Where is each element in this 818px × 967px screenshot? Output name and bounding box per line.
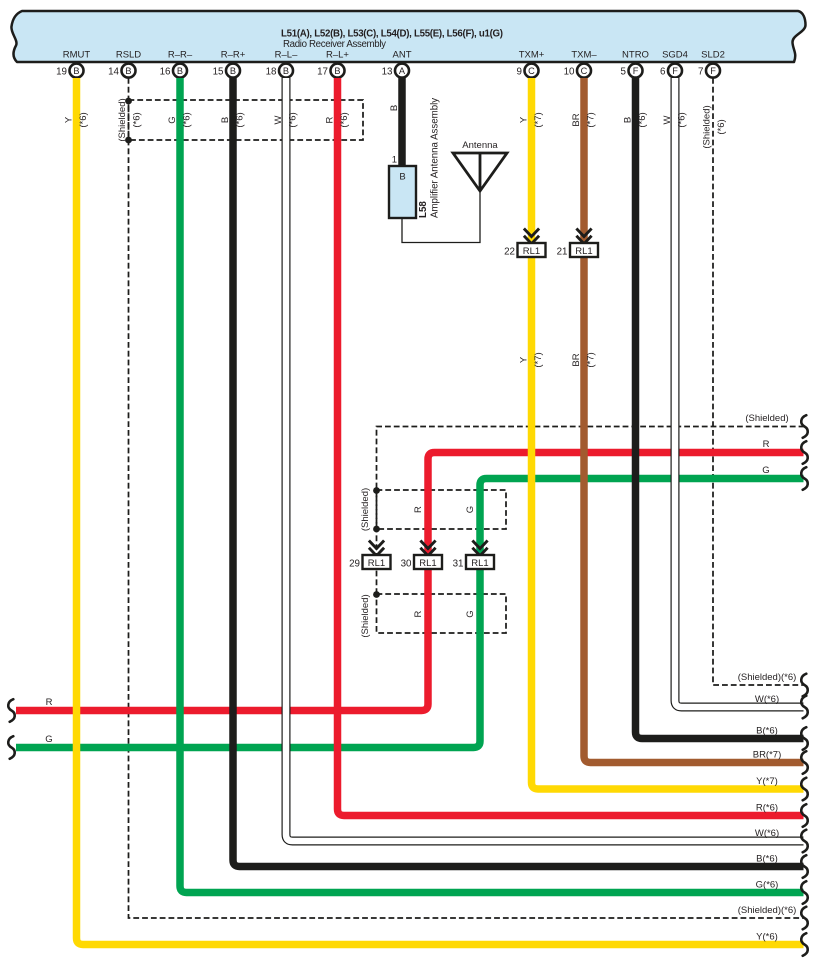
svg-text:(Shielded): (Shielded) [117,98,128,141]
svg-text:29: 29 [349,559,360,570]
svg-text:W: W [273,115,284,124]
radio receiver assembly banner [11,11,805,62]
svg-text:R: R [413,610,424,617]
svg-text:BR: BR [571,353,582,366]
svg-text:RL1: RL1 [523,246,540,257]
svg-text:G: G [465,610,476,617]
splice 31 RL1 [453,541,494,570]
svg-text:TXM+: TXM+ [519,50,545,61]
wire NTRO B(*6) [623,78,808,750]
svg-text:G: G [45,734,52,745]
connector label TXM- [571,50,597,61]
amplifier antenna assembly L58 [389,98,441,218]
pin 6(F) [660,64,682,78]
connector label ANT [393,50,412,61]
svg-text:SLD2: SLD2 [701,50,725,61]
svg-text:G: G [762,465,769,476]
svg-text:1: 1 [392,155,397,166]
pin 17(B) [317,64,344,78]
svg-text:B(*6): B(*6) [756,726,778,737]
svg-text:17: 17 [317,66,328,77]
svg-text:5: 5 [621,66,627,77]
junction dots on shield lines [125,98,380,598]
svg-text:(Shielded)(*6): (Shielded)(*6) [738,905,797,916]
svg-text:B: B [283,66,289,76]
splice 21 RL1 [557,229,598,258]
svg-text:B: B [177,66,183,76]
svg-text:B: B [220,117,231,123]
svg-text:6: 6 [660,66,666,77]
svg-text:(*7): (*7) [533,112,544,127]
svg-text:13: 13 [382,66,393,77]
svg-text:Y(*7): Y(*7) [756,776,778,787]
antenna [453,140,507,191]
svg-text:R–L+: R–L+ [326,50,349,61]
svg-text:Amplifier Antenna Assembly: Amplifier Antenna Assembly [430,98,441,218]
shield box around G,B,W,R wires (top) [129,100,364,140]
svg-text:W(*6): W(*6) [755,828,779,839]
svg-text:BR: BR [571,113,582,126]
pin 9(C) [517,64,539,78]
svg-text:B(*6): B(*6) [756,854,778,865]
shield box lower (R,G pair) [360,594,506,638]
svg-text:B: B [334,66,340,76]
svg-text:Radio Receiver Assembly: Radio Receiver Assembly [283,39,386,50]
svg-text:C: C [528,66,535,76]
svg-text:R(*6): R(*6) [756,803,778,814]
banner title L51(A)...u1(G) [281,29,503,51]
svg-text:(*6): (*6) [78,112,89,127]
connector label SGD4 [662,50,688,61]
svg-text:16: 16 [160,66,171,77]
svg-text:Y: Y [519,356,530,363]
svg-text:RL1: RL1 [471,558,488,569]
wire SGD4 W(*6) [662,78,808,718]
svg-text:G(*6): G(*6) [756,880,779,891]
svg-text:RMUT: RMUT [63,50,91,61]
svg-text:B: B [125,66,131,76]
splice 22 RL1 [504,229,545,258]
connector label SLD2 [701,50,725,61]
wire SLD2 shield (dashed) [702,78,808,696]
svg-text:(*7): (*7) [586,352,597,367]
pin 7(F) [698,64,720,78]
svg-text:G: G [465,506,476,513]
svg-text:B: B [230,66,236,76]
splice 29 RL1 [349,541,390,570]
wire ANT B [389,78,402,168]
svg-text:TXM–: TXM– [571,50,597,61]
svg-text:F: F [633,66,639,76]
svg-text:30: 30 [401,559,412,570]
svg-text:B: B [623,117,634,123]
svg-text:(*6): (*6) [637,112,648,127]
svg-text:(Shielded): (Shielded) [360,594,371,637]
svg-text:F: F [672,66,678,76]
svg-text:RL1: RL1 [419,558,436,569]
wire G (left) through RL1 31 to right [8,465,808,759]
svg-text:R: R [46,697,53,708]
svg-text:(*6): (*6) [182,112,193,127]
svg-text:G: G [167,116,178,123]
svg-text:(Shielded): (Shielded) [360,488,371,531]
svg-text:F: F [710,66,716,76]
svg-text:B: B [399,172,405,183]
svg-text:W(*6): W(*6) [755,694,779,705]
svg-text:RSLD: RSLD [116,50,141,61]
shield box upper (R,G pair) [360,488,506,531]
svg-text:R–R+: R–R+ [221,50,246,61]
svg-text:ANT: ANT [393,50,412,61]
connector label RSLD [116,50,141,61]
pin 19(B) [56,64,83,78]
svg-text:B: B [73,66,79,76]
svg-text:RL1: RL1 [575,246,592,257]
wire R (left) through RL1 30 to right [8,439,808,722]
wire R-R+ B(*6) [220,78,808,878]
wire R-R- G(*6) [167,78,808,904]
wire R-L+ R(*6) [325,78,808,827]
wire TXM- BR(*7) [571,78,808,774]
svg-text:(Shielded): (Shielded) [702,105,713,148]
svg-text:(*6): (*6) [716,119,727,134]
shield net RL1 29 (dashed) [377,413,808,594]
wire TXM+ Y(*7) [519,78,808,800]
svg-text:A: A [399,66,406,76]
svg-text:R: R [413,506,424,513]
svg-text:W: W [662,115,673,124]
pin 18(B) [266,64,293,78]
svg-text:BR(*7): BR(*7) [753,750,782,761]
wire R-L- W(*6) [273,78,808,852]
svg-text:9: 9 [517,66,522,77]
svg-text:(Shielded): (Shielded) [745,413,788,424]
pin 10(C) [564,64,591,78]
connector label TXM+ [519,50,545,61]
svg-text:Antenna: Antenna [462,140,498,151]
svg-text:10: 10 [564,66,575,77]
svg-text:C: C [581,66,588,76]
svg-text:Y: Y [519,116,530,123]
svg-text:(*7): (*7) [533,352,544,367]
connector label R-R- [168,50,193,61]
svg-text:(*6): (*6) [677,112,688,127]
svg-text:R–R–: R–R– [168,50,193,61]
svg-text:L51(A), L52(B), L53(C), L54(D): L51(A), L52(B), L53(C), L54(D), L55(E), … [281,29,503,40]
connector label R-R+ [221,50,246,61]
svg-text:NTRO: NTRO [622,50,649,61]
splice 30 RL1 [401,541,442,570]
connector label R-L- [275,50,298,61]
svg-text:22: 22 [504,247,515,258]
wire RSLD shield (dashed) [117,78,808,929]
svg-text:R: R [763,439,770,450]
svg-text:B: B [389,105,400,111]
pin 13(A) [382,64,409,78]
wire antenna lead [402,191,480,243]
connector label NTRO [622,50,649,61]
connector label R-L+ [326,50,349,61]
svg-text:15: 15 [213,66,224,77]
svg-text:RL1: RL1 [368,558,385,569]
svg-text:R: R [325,116,336,123]
svg-text:31: 31 [453,559,464,570]
pin 16(B) [160,64,187,78]
svg-text:19: 19 [56,66,67,77]
svg-text:L58: L58 [418,201,429,218]
connector label RMUT [63,50,91,61]
svg-text:R–L–: R–L– [275,50,298,61]
svg-text:14: 14 [108,66,119,77]
svg-text:(*6): (*6) [235,112,246,127]
svg-text:(*6): (*6) [339,112,350,127]
pin 15(B) [213,64,240,78]
svg-text:(*7): (*7) [586,112,597,127]
pin 5(F) [621,64,643,78]
svg-text:21: 21 [557,247,568,258]
svg-text:Y: Y [64,116,75,123]
svg-text:SGD4: SGD4 [662,50,688,61]
svg-text:(*6): (*6) [132,112,143,127]
svg-text:(Shielded)(*6): (Shielded)(*6) [738,672,797,683]
svg-text:7: 7 [698,66,703,77]
svg-text:18: 18 [266,66,277,77]
svg-text:Y(*6): Y(*6) [756,932,778,943]
pin 14(B) [108,64,135,78]
svg-text:(*6): (*6) [288,112,299,127]
